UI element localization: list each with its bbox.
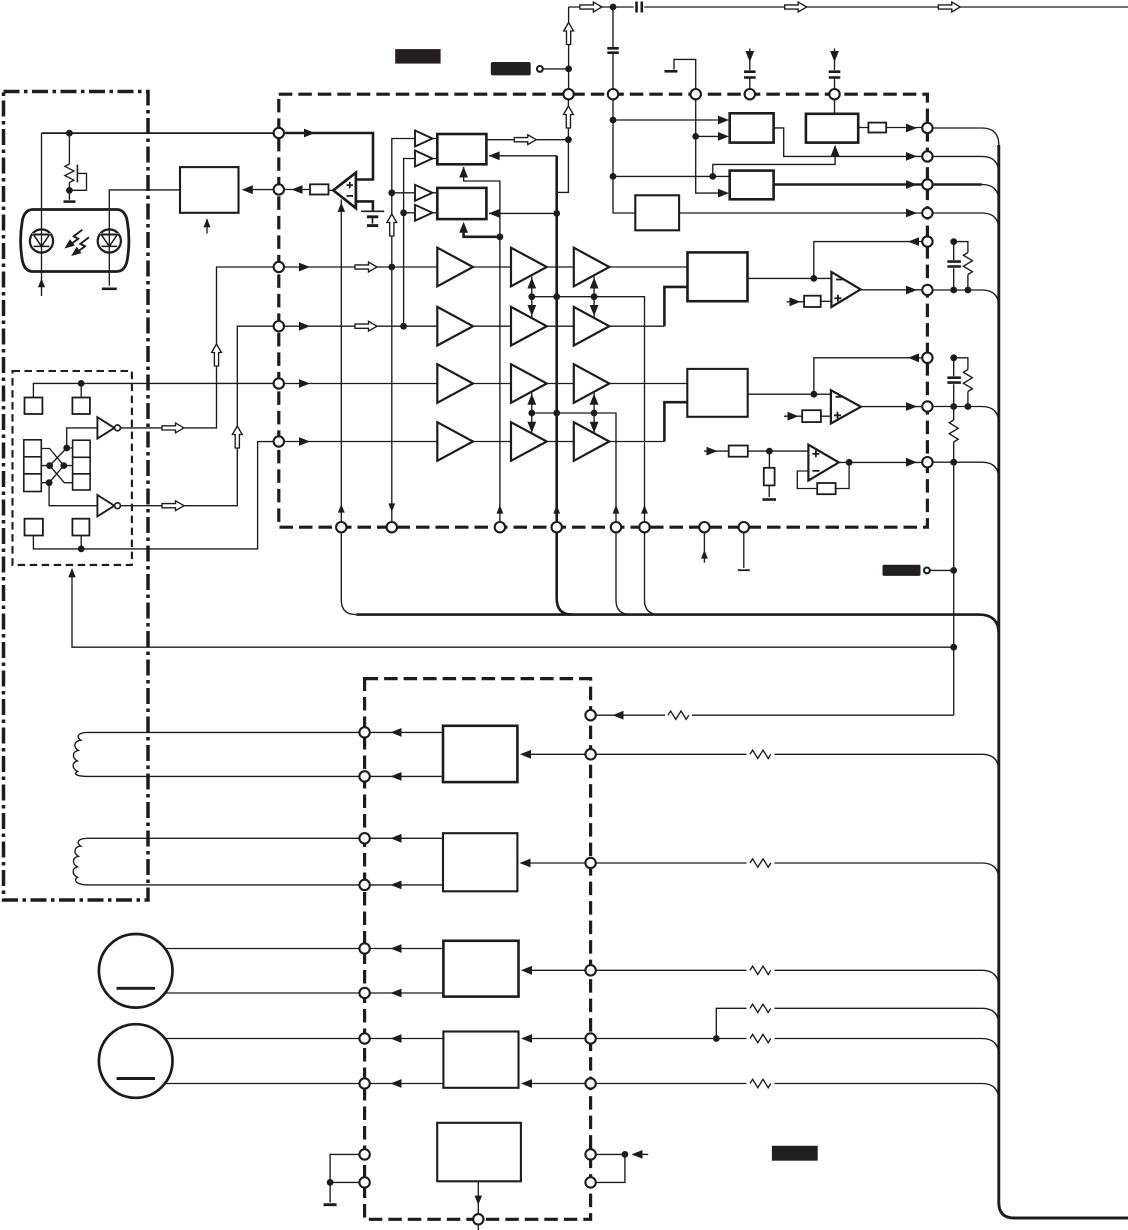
block 2D (motor driver 2) [443, 1032, 518, 1088]
buffer outputs into blocks [432, 139, 437, 213]
arrow above bottom border pin B2 (down) [388, 503, 395, 512]
ground bar IC2 [324, 1203, 337, 1206]
wire top output line [569, 6, 1128, 8]
hollow arrow on top line mid [785, 2, 807, 12]
matrix node b [46, 462, 53, 469]
node feedback ch1 [810, 275, 817, 282]
black label L2 with terminal [491, 62, 531, 75]
hollow arrow below top pin T1 [564, 106, 574, 128]
wire node712 to block B3 input1 [713, 175, 730, 177]
IC2 left pin P6 [359, 988, 369, 998]
wire bus row to 2A input [529, 753, 586, 755]
plus U2b [834, 412, 841, 419]
block 2E (regulator) [437, 1123, 521, 1182]
coil L1 [73, 732, 88, 776]
node c5 bottom [950, 287, 957, 294]
feedback wire ch1 from pin R5 [814, 242, 922, 279]
IC2 right pin Q6 [585, 1078, 595, 1088]
wire coil2 rows [88, 838, 359, 885]
wire node712 up to block B2 bottom [713, 146, 835, 176]
wire B1 out to right pin R2 [774, 128, 923, 156]
reference cell at U1a inverting input [356, 201, 373, 210]
swap link col3 rows1-2 [593, 277, 595, 318]
motor M2 brush bar [117, 1077, 156, 1080]
node ground loop [327, 1179, 334, 1186]
wire node up to top pin T1 [567, 99, 569, 139]
arrow above bottom border pin B1 [338, 504, 345, 513]
buffer A2 top [415, 185, 432, 201]
hollow arrow up on x392 [387, 214, 397, 236]
node feedback ch2 [811, 391, 818, 398]
contact S4 [72, 519, 89, 536]
IC1 right pin R9 [922, 457, 932, 467]
hollow arrow on U3a output [162, 423, 184, 433]
IC1 right pin R1 [922, 123, 932, 133]
IC1 border (dashed) [279, 94, 928, 527]
IC2 right pin Q5 [585, 1033, 595, 1043]
IC2 left pin P3 [359, 833, 369, 843]
motor M1 [99, 934, 173, 1008]
IC2 right pin Q3 [585, 858, 595, 868]
amp A1 [437, 248, 473, 287]
wire LED D1 anode stub with up arrow [41, 252, 43, 296]
block 2B (driver coil2) [443, 833, 517, 891]
IC2 border (dashed) [365, 679, 591, 1220]
wire amp C2 to D1 (bold L) [609, 325, 664, 327]
wire ch2 out row to bus [933, 407, 999, 424]
feedback wire ch2 from pin R7 [814, 358, 922, 394]
IC2 left pin P7 [359, 1033, 369, 1043]
resistor R6 across ch2 pins [954, 358, 968, 407]
wire U1a output to pin L2 [279, 189, 334, 192]
IC2 right pin Q2 [585, 749, 595, 759]
row 863 with resistor from bus [596, 863, 999, 880]
wire row 133 to IC1 pin L1 [42, 132, 279, 134]
resistor R5 across ch1 pins [954, 242, 968, 290]
small box after B2 [868, 123, 886, 133]
node c6 top [950, 354, 957, 361]
swap link col3 rows3-4 [593, 393, 595, 434]
node loop right [622, 1151, 629, 1158]
wire vertical x392 (pin B2 riser) [392, 139, 415, 528]
wire S3/S4 commons to IC1 pin L6 [33, 442, 278, 549]
IC2 left pin P10 [359, 1177, 369, 1187]
mechanism block border (dash-dot) [4, 92, 149, 901]
IC1 top pin T3 [691, 89, 701, 99]
wire matrix to U3b input [49, 483, 97, 506]
IC2 bottom pin [473, 1214, 483, 1224]
node x613 b1 [610, 117, 617, 124]
wire C out to pin R4 [679, 212, 922, 214]
wire matrix to U3a input [67, 428, 98, 448]
stub with up arrow into RF amp bottom [206, 219, 208, 234]
gain box U2a plus [804, 296, 821, 307]
block A1 (head amp L) [437, 134, 486, 164]
coil L2 [73, 838, 88, 885]
block B2 (reg) [806, 114, 858, 143]
buffer A1 top [415, 131, 432, 147]
wire U3b out to IC1 pin L4 [120, 326, 278, 506]
vertical sense line x953 [953, 462, 955, 715]
wire driver output row y884 [370, 884, 443, 886]
hollow arrow on top line [580, 2, 602, 12]
wire pin B4 down to mute bus (bold) [557, 532, 572, 614]
IC2 right pin Q7 [585, 1149, 595, 1159]
IC1 left pin L2 [274, 184, 284, 194]
wire bus row to 2D input b [530, 1083, 586, 1085]
swap bus rows1-2 to pin B6 [532, 297, 645, 528]
photo sensor body [21, 210, 129, 272]
wire IC2 bottom-right pins loop [596, 1154, 625, 1182]
block 2A (driver coil1) [443, 726, 517, 782]
black label L1 [395, 49, 440, 64]
wire vertical from top line to label node [568, 7, 570, 69]
node at x568 y68.9 [565, 66, 572, 73]
hollow arrow on U3b output [162, 501, 184, 511]
wire pin B5 down to mute bus [616, 532, 631, 614]
resistor R7 pin R8 to R9 row [953, 407, 955, 463]
wire A2 top input [392, 192, 415, 194]
wire x613 to node 712 [613, 175, 713, 177]
node x557 to A2 right input [553, 210, 560, 217]
arrow above bottom border pin B4 [553, 505, 560, 514]
comparator U1a (points left) [333, 173, 356, 209]
node A1 output riser [565, 136, 572, 143]
motor M2 [99, 1024, 173, 1098]
wire pin R1 row to bus [933, 128, 999, 145]
wire node to IC1 top pin 1 [568, 69, 570, 89]
amp B3 [511, 364, 547, 403]
node at U2c input divider [766, 448, 773, 455]
inverter U3b bubble [115, 503, 121, 509]
input stub to U2a plus [787, 301, 805, 303]
IC1 left pin L1 [274, 128, 284, 138]
wire 2E output down to bottom pin [477, 1181, 479, 1213]
mute bus (bold horizontal) [356, 615, 999, 634]
amp A4 [437, 422, 473, 461]
node swap2 on x557 [553, 410, 560, 417]
IC1 bottom pin B6 [639, 522, 649, 532]
IC1 right pin R5 [922, 236, 932, 246]
block 2C (motor driver 1) [443, 941, 518, 997]
inter-stage wires col2-col3 [547, 267, 574, 442]
hollow arrow row1 [355, 262, 377, 272]
wire D2 lead through [108, 229, 110, 252]
inverter U3b [97, 495, 114, 516]
wire LED D1 cathode up to row 133 [41, 133, 43, 229]
minus U2b [836, 396, 843, 398]
main bus line (bold) [999, 145, 1128, 1218]
wire from IC1 pin L2 into RF amp (arrow) [250, 189, 279, 191]
hollow arrow on A1 output [514, 135, 536, 145]
wire bottom pin B1 up to U1a (arrow) [340, 200, 342, 528]
IC2 left pin P2 [359, 771, 369, 781]
long control wire to switch unit (arrow up) [72, 577, 954, 647]
arrow above bottom border pin B6 [641, 505, 648, 514]
row 1083 with resistor from bus [596, 1084, 999, 1101]
IC1 bottom pin B5 [611, 522, 621, 532]
matrix cross wiring [41, 448, 72, 483]
wire pin B1 down to mute bus [341, 532, 356, 614]
contact S1 [25, 398, 43, 415]
wire L3 terminal to sense line [930, 569, 954, 571]
stub below bottom pin B8 with bar [743, 532, 745, 568]
IC2 right pin Q4 [585, 965, 595, 975]
matrix node a [63, 445, 70, 452]
wire from L2 terminal to node [543, 68, 569, 70]
wire x500 to A2 bottom (bold) [464, 226, 500, 237]
wire vertical x403 riser [404, 159, 415, 327]
black label L3 with terminal [883, 565, 921, 576]
wire pin R4 row to bus [933, 213, 999, 230]
wire motor M2 rows [165, 1039, 360, 1084]
row2 wire pin L4 to amp2 [284, 325, 437, 327]
node swap1 on x557 [553, 293, 560, 300]
node U2c output [846, 459, 853, 466]
wire pin B6 down to mute bus [645, 532, 660, 614]
wire amp C4 to D2 (bold L) [609, 441, 664, 443]
wire node down to bias line [557, 140, 569, 193]
op-amp U2b [831, 390, 861, 423]
capacitor C6 across ch2 pins [953, 358, 955, 407]
block B3 (reg) [730, 171, 774, 200]
input stub with down arrow into cap C4 [834, 48, 836, 70]
wire D2 to ground [108, 252, 110, 286]
amp C3 [574, 364, 610, 403]
inter-stage wires col1-col2 [473, 267, 511, 442]
block D2 (power sw R) [687, 369, 747, 417]
node below S4 [78, 546, 85, 553]
minus U2a [836, 279, 843, 281]
row4 wire pin L6 to amp4 [284, 441, 437, 443]
amp C1 [574, 248, 610, 287]
wire to A2 right input [489, 212, 557, 214]
feedback loop U2c [797, 462, 849, 488]
plus sign U1a [347, 182, 353, 188]
amp B1 [511, 248, 547, 287]
row 715 with resistor from sense line [596, 714, 954, 716]
node c6 bottom [950, 403, 957, 410]
input stub to U2c [704, 450, 729, 452]
node row1038 branch [713, 1035, 720, 1042]
node above S2 [78, 380, 85, 387]
IC1 bottom pin B2 [387, 522, 397, 532]
IC2 left pin P1 [359, 727, 369, 737]
IC1 bottom pin B4 [552, 522, 562, 532]
IC2 right pin Q1 [585, 710, 595, 720]
plus U2a [834, 295, 841, 302]
IC1 left pin L6 [274, 436, 284, 446]
switch unit border (dashed) [13, 371, 132, 565]
wire driver output row y776 [370, 775, 443, 777]
IC1 left pin L4 [274, 321, 284, 331]
swap bus rows3-4 to pin B5 [532, 413, 616, 527]
amp A2 [437, 307, 473, 346]
series resistor box U2c [729, 446, 748, 457]
wire U2c out to pin R9 [839, 461, 922, 463]
wire motor M1 rows [165, 949, 360, 994]
IC1 right pin R2 [922, 151, 932, 161]
wire amp C3 to D2 [609, 383, 687, 385]
plus U2c [812, 450, 819, 457]
amp B2 [511, 307, 547, 346]
node on row 133 [66, 130, 73, 137]
IC1 left pin L5 [274, 378, 284, 388]
wire top pin T3 riser x695 [696, 99, 722, 193]
wire IC2 bottom-left pins to ground [330, 1154, 359, 1202]
node R9 tap [950, 459, 957, 466]
wire A2 bottom input [404, 212, 415, 214]
capacitor C3 above pin 4 [744, 72, 756, 78]
wire to block B1 input2 [696, 135, 722, 137]
arrow above bottom border pin B3 [496, 505, 503, 514]
contact S2 [72, 398, 90, 415]
photo detector D2 in sensor [98, 229, 121, 252]
wire driver output row y838 [370, 837, 443, 839]
capacitor C-top (series, on top line) [637, 2, 642, 13]
amp B4 [511, 422, 547, 461]
buffer A2 bottom [415, 205, 432, 221]
wire U2b out to pin R8 [861, 406, 922, 408]
stub below IC2 bottom pin [477, 1225, 479, 1230]
wire box to U2b plus [821, 415, 831, 417]
IC1 right pin R4 [922, 208, 932, 218]
wire amp C1 to D1 [609, 266, 687, 268]
inverter U3a bubble [115, 425, 121, 431]
wire box to U2a plus [821, 300, 832, 302]
wire A1 output to top pin T1 [486, 139, 568, 141]
matrix node d [46, 479, 53, 486]
IC1 top pin T1 [563, 89, 573, 99]
node x403 at A2 bottom input [400, 209, 407, 216]
LED D1 in sensor [30, 229, 53, 252]
wire bus row to 2C input [530, 969, 586, 971]
wire U2a out to pin R6 [861, 289, 923, 291]
wire LED D1 lead through [41, 229, 43, 252]
chassis ground at top pin 3 [674, 59, 696, 89]
capacitor C4 above pin 5 [829, 72, 841, 78]
input stub to U2b plus [784, 415, 802, 417]
wire U3a out to IC1 pin L3 [120, 267, 278, 428]
IC1 bottom pin B7 [699, 522, 709, 532]
hollow arrow on top line right [938, 2, 960, 12]
capacitor C5 across ch1 pins [953, 242, 955, 290]
IC1 right pin R3 [922, 179, 932, 189]
node x712 [709, 173, 716, 180]
arrow above bottom border pin B5 [613, 505, 620, 514]
trimmer wiper wire [73, 173, 87, 190]
IC1 bottom pin B8 [739, 522, 749, 532]
node sense/control [950, 644, 957, 651]
switch matrix right column [73, 440, 91, 490]
node x392 at A2 top input [388, 189, 395, 196]
row 1008 branch with resistor from bus [716, 1008, 999, 1038]
wire top pin T2 riser x613 [613, 99, 635, 213]
IC2 left pin P9 [359, 1149, 369, 1159]
node r6 bottom [965, 403, 972, 410]
row1 wire pin L3 to amp1 [284, 266, 437, 268]
IC1 bottom pin B3 [495, 522, 505, 532]
node r5 bottom [965, 287, 972, 294]
wire B2 out via small box to pin R1 [858, 127, 922, 129]
node under trimmer [66, 187, 73, 194]
block A2 (head amp R) [437, 188, 486, 219]
wire driver output row y948 [370, 948, 443, 950]
minus sign U1a [347, 195, 353, 197]
stub below bottom pin B7 with up arrow [703, 532, 705, 562]
wire to block B1 input1 [613, 119, 722, 121]
row 754 with resistor from bus [596, 754, 999, 771]
wire bus row to 2B input [529, 862, 586, 864]
ground bar under D2 [102, 287, 117, 290]
node x403 row2 [400, 323, 407, 330]
input stub with down arrow into cap C3 [749, 48, 751, 70]
block D1 (power sw L) [688, 252, 748, 301]
amp C2 [574, 307, 610, 346]
IC2 left pin P4 [359, 880, 369, 890]
node x613 b2 [610, 173, 617, 180]
node x392 row1 [388, 264, 395, 271]
inverter U3a [97, 417, 114, 438]
IC1 top pin T4 [745, 89, 755, 99]
input stub with arrow at loop [634, 1153, 648, 1155]
switch matrix left column [24, 440, 42, 492]
wire bus row to 2D input a [530, 1038, 586, 1040]
buffer A1 bottom [415, 151, 432, 167]
hollow arrow up to row267 [212, 344, 222, 366]
wire D2 out to op-amp U2b [748, 393, 831, 395]
block B1 (reg) [730, 113, 774, 142]
block C (osc) [635, 195, 679, 230]
wire coil1 rows [88, 732, 359, 776]
node sense/L3 [950, 567, 957, 574]
black label L4 [772, 1146, 818, 1161]
swap link col2 rows3-4 [531, 393, 533, 434]
row 1038 with resistor from bus [596, 1039, 999, 1056]
IC1 top pin T2 [608, 89, 618, 99]
IC2 left pin P5 [359, 943, 369, 953]
hollow arrow up on vertical [564, 23, 574, 45]
wire driver output row y1083 [370, 1083, 443, 1085]
divider resistor box to ground [768, 451, 770, 497]
node x500 branch [497, 233, 504, 240]
wire A1 bottom feed via x500 [464, 167, 500, 527]
wire S1/S2 commons to IC1 pin L5 row 383 [33, 383, 278, 397]
op-amp U2c [808, 445, 838, 481]
capacitor C2 (to top pin x613) [612, 7, 614, 89]
motor M1 brush bar [117, 987, 156, 990]
row 970 with resistor from bus [596, 970, 999, 987]
hollow arrow up to row326 [232, 426, 242, 448]
contact S3 [25, 519, 43, 536]
row3 wire pin L5 to amp3 [284, 383, 437, 385]
trimmer wiper bar [76, 165, 78, 183]
wire pin R3 row to bus (bold then curve) [933, 183, 982, 186]
IC2 right pin Q8 [585, 1177, 595, 1187]
wire ch1 out row to bus [933, 290, 999, 307]
wire top pin T5 to B2 top [834, 99, 836, 113]
gain box U2b plus [802, 410, 821, 422]
minus U2c [812, 470, 819, 472]
op-amp U2a [831, 272, 860, 307]
IC1 left pin L3 [274, 262, 284, 272]
terminal circle of L2 [537, 66, 543, 72]
amp C4 [574, 422, 610, 461]
hollow arrow row2 [355, 321, 377, 331]
light rays [62, 230, 89, 259]
RF amp block [180, 167, 239, 213]
ground bar under divider [762, 498, 776, 501]
